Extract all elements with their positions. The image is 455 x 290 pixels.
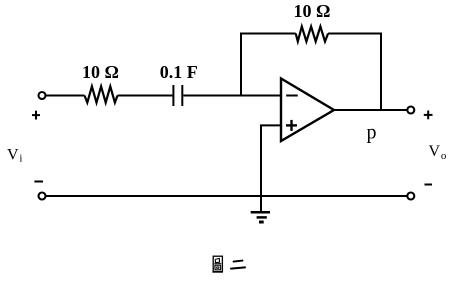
wire non-inverting input to ground branch bbox=[261, 125, 281, 196]
caption: figure 2 character er bbox=[231, 261, 245, 269]
op-amp U1 bbox=[281, 79, 334, 142]
ground bbox=[251, 196, 270, 222]
wire input to R1 bbox=[45, 95, 84, 97]
wire C1 to op-amp inverting input bbox=[183, 95, 281, 97]
wire feedback right vertical bbox=[380, 33, 382, 111]
resistor R1 10 ohm bbox=[85, 86, 118, 102]
wire R1 to C1 bbox=[118, 95, 173, 97]
label - (output bottom) bbox=[425, 184, 433, 186]
caption: figure 2 character tu bbox=[212, 256, 223, 272]
resistor R2 10 ohm (feedback) bbox=[296, 27, 328, 42]
svg-text:10 Ω: 10 Ω bbox=[82, 62, 119, 82]
input terminal (Vi +) bbox=[39, 92, 46, 99]
svg-text:p: p bbox=[367, 122, 377, 144]
label + (output) bbox=[424, 111, 433, 120]
label - (input bottom) bbox=[34, 181, 43, 183]
bottom right terminal (Vo -) bbox=[407, 193, 414, 200]
wire R2 to right feedback corner bbox=[328, 33, 381, 35]
node feedback tap bbox=[240, 34, 242, 96]
wire op-amp output bbox=[334, 109, 408, 111]
output terminal (Vo +) bbox=[407, 107, 414, 114]
bottom wire bbox=[45, 195, 407, 197]
capacitor C1 0.1 F bbox=[173, 85, 182, 106]
op-amp non-inverting input marker + bbox=[286, 120, 297, 131]
svg-text:10 Ω: 10 Ω bbox=[294, 1, 331, 21]
label + (input top) bbox=[32, 111, 40, 120]
svg-text:0.1 F: 0.1 F bbox=[160, 62, 198, 82]
wire top left to R2 bbox=[240, 33, 296, 35]
bottom left terminal (Vi -) bbox=[39, 193, 46, 200]
op-amp inverting input marker - bbox=[286, 95, 298, 97]
